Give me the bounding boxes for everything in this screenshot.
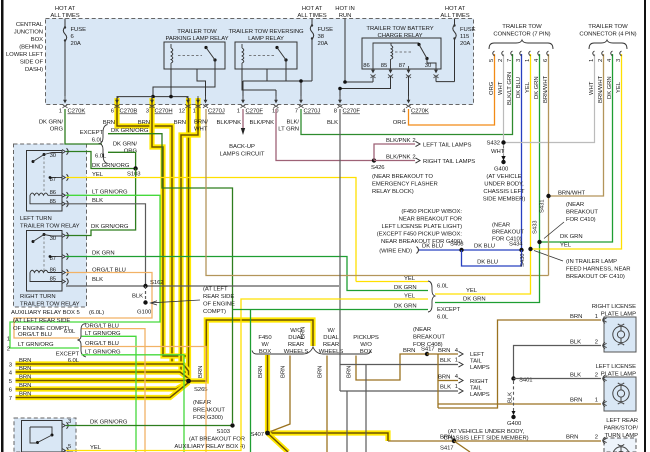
connector C270K pin 1 — [59, 96, 86, 115]
svg-text:BRN: BRN — [570, 398, 582, 404]
svg-text:BRN: BRN — [198, 366, 204, 378]
svg-text:6.0L: 6.0L — [437, 315, 449, 321]
wire-end arc — [417, 247, 419, 254]
wire DK GRN/ORG S103 to relay L2 pin30 — [66, 169, 136, 236]
page left border — [1, 0, 4, 452]
brace rows split — [78, 324, 87, 357]
svg-text:JUNCTION: JUNCTION — [14, 30, 43, 36]
svg-text:PICKUPS: PICKUPS — [353, 335, 379, 341]
wire BRN w/o dual rear wheels drop to S407 — [271, 356, 291, 432]
label EXCEPT 6.0L — [80, 130, 104, 144]
wire BRN to left license pin 1 — [438, 403, 601, 405]
left rear lamp bulb (partial) — [613, 444, 629, 452]
svg-text:TRAILER TOW: TRAILER TOW — [588, 24, 628, 30]
svg-text:TRAILER TOW BATTERY: TRAILER TOW BATTERY — [366, 26, 433, 32]
svg-text:BREAKOUT: BREAKOUT — [413, 335, 445, 341]
svg-text:TRAILER TOW RELAY: TRAILER TOW RELAY — [20, 224, 80, 230]
central junction box (dashed) — [46, 19, 474, 105]
wire BRN from C270H-3 (highlighted) — [152, 98, 189, 356]
wire DK GRN/ORG from C270K-1 — [65, 109, 102, 144]
svg-text:DUAL: DUAL — [288, 335, 304, 341]
svg-text:YEL: YEL — [92, 172, 104, 178]
left license plate lamp box — [604, 377, 636, 411]
right license plate lamp box — [604, 317, 636, 352]
svg-text:DUAL: DUAL — [323, 335, 339, 341]
label (NEAR BREAKOUT FOR C408) — [413, 327, 445, 348]
alternative headers W/ DUAL REAR WHEELS — [319, 328, 344, 355]
junction hot-in-run — [343, 80, 347, 84]
svg-text:C270J: C270J — [304, 109, 321, 115]
wire BRN from C270B-6 (highlighted) — [117, 98, 172, 364]
brace except/6.0L split — [100, 125, 108, 164]
wire BRN row 3 (highlighted) — [16, 364, 189, 381]
wire K3 87 to C270K-4 — [408, 76, 410, 100]
svg-text:S408: S408 — [450, 242, 464, 248]
wire BLK descender at x366 — [365, 365, 367, 452]
svg-text:BLK: BLK — [440, 385, 451, 391]
brace under alternatives — [252, 347, 371, 354]
svg-text:ORG/LT BLU: ORG/LT BLU — [85, 323, 119, 329]
wire DK GRN/ORG except-6.0L branch to S103-2 riser — [108, 134, 233, 423]
label (AT LEFT REAR SIDE OF ENGINE COMPT) — [203, 287, 235, 316]
svg-text:EMERGENCY FLASHER: EMERGENCY FLASHER — [372, 182, 438, 188]
svg-text:TRAILER TOW: TRAILER TOW — [177, 29, 217, 35]
svg-text:1: 1 — [525, 59, 531, 62]
svg-text:S103: S103 — [127, 172, 141, 178]
svg-text:PARKING LAMP RELAY: PARKING LAMP RELAY — [165, 36, 228, 42]
wire DK BLU S408-S434 — [419, 54, 522, 250]
svg-text:LEFT REAR: LEFT REAR — [606, 418, 638, 424]
wire BLK/PNK S426 to right tail lamps — [374, 160, 415, 162]
wire LT GRN/ORG relay L1 86 — [10, 195, 160, 348]
svg-text:(NEAR: (NEAR — [566, 202, 584, 208]
svg-text:TRAILER TOW RELAY: TRAILER TOW RELAY — [20, 302, 80, 308]
svg-text:BRN: BRN — [19, 383, 31, 389]
relay K3 trailer tow battery charge relay — [362, 26, 441, 78]
junction YEL — [528, 247, 532, 251]
svg-text:S417: S417 — [440, 446, 454, 452]
svg-text:BRN: BRN — [138, 120, 150, 126]
svg-text:BRN: BRN — [438, 348, 450, 354]
svg-text:2: 2 — [595, 435, 598, 441]
wire BRN/WHT 4-pin pin2 to S431 — [549, 54, 604, 196]
label BACK-UP LAMPS CIRCUIT — [220, 144, 265, 158]
svg-text:PLATE LAMP: PLATE LAMP — [601, 312, 636, 318]
wire DK GRN/ORG branch at x250 down — [233, 309, 429, 311]
svg-text:RUN: RUN — [339, 13, 352, 19]
svg-text:LT GRN: LT GRN — [278, 127, 299, 133]
svg-text:85: 85 — [50, 277, 57, 283]
svg-text:1: 1 — [237, 109, 240, 115]
node S401 — [511, 376, 532, 383]
wire DK GRN/ORG relay B pin3 to S103 — [66, 425, 233, 427]
svg-text:7: 7 — [9, 396, 12, 402]
svg-text:BLK: BLK — [132, 294, 143, 300]
svg-text:DK GRN: DK GRN — [560, 234, 583, 240]
connector C270J pin 7 — [295, 96, 321, 115]
svg-text:LAMP RELAY: LAMP RELAY — [248, 36, 284, 42]
svg-text:LAMPS: LAMPS — [470, 392, 490, 398]
svg-text:TRAILER TOW: TRAILER TOW — [502, 24, 542, 30]
svg-text:RIGHT TURN: RIGHT TURN — [20, 294, 56, 300]
svg-text:RELAY BLOCK): RELAY BLOCK) — [372, 189, 414, 195]
fuse 115 20A — [436, 19, 476, 82]
wire BRN/WHT 7-pin pin6 riser — [548, 54, 550, 276]
svg-text:C270K: C270K — [411, 109, 429, 115]
svg-text:DASH): DASH) — [25, 67, 43, 73]
svg-text:LOWER LEFT: LOWER LEFT — [6, 52, 44, 58]
svg-text:NEAR BREAKOUT FOR: NEAR BREAKOUT FOR — [399, 217, 462, 223]
wire BRN S417 to left tail lamps — [427, 353, 458, 355]
wire BRN S417 stub down — [454, 441, 470, 452]
svg-text:DK BLU: DK BLU — [516, 77, 522, 98]
wire BRN F450 w/box drop to S407 (highlighted) — [265, 355, 270, 433]
svg-text:S417: S417 — [421, 347, 435, 353]
connector arc overlays on highlighted pins — [115, 96, 201, 108]
svg-text:BLK: BLK — [327, 120, 338, 126]
svg-text:86: 86 — [363, 63, 370, 69]
wire YEL relay L1 87 — [66, 178, 356, 282]
svg-text:ORG: ORG — [489, 81, 495, 95]
svg-text:(AT LEFT: (AT LEFT — [203, 287, 228, 293]
svg-text:TAIL: TAIL — [470, 359, 483, 365]
svg-text:FUSE: FUSE — [318, 27, 334, 33]
svg-text:ORG: ORG — [50, 127, 64, 133]
wire BLK descender at x347 — [346, 391, 348, 452]
svg-text:DK GRN: DK GRN — [394, 304, 417, 310]
svg-text:DK GRN: DK GRN — [463, 297, 486, 303]
wire BRN row 6 (highlighted) — [16, 382, 189, 389]
svg-text:1: 1 — [455, 384, 458, 390]
svg-text:1: 1 — [455, 358, 458, 364]
arrow right tail lamps — [416, 158, 421, 163]
wire ORG/LT BLU except arm — [82, 347, 207, 452]
svg-text:DK GRN/ORG: DK GRN/ORG — [90, 420, 128, 426]
svg-text:F450: F450 — [258, 335, 272, 341]
right license lamp bulb — [613, 324, 629, 345]
svg-text:DK GRN/: DK GRN/ — [39, 120, 64, 126]
svg-text:BLK/PNK: BLK/PNK — [386, 155, 411, 161]
svg-text:S431: S431 — [540, 199, 546, 213]
svg-text:G400: G400 — [494, 167, 509, 173]
svg-text:SIDE OF: SIDE OF — [20, 60, 44, 66]
wire BRN from C270J-15 aux (highlighted) — [181, 98, 198, 372]
svg-text:LEFT: LEFT — [470, 352, 485, 358]
svg-text:BRN: BRN — [19, 392, 31, 398]
svg-text:BRN/: BRN/ — [194, 120, 208, 126]
svg-text:2: 2 — [598, 59, 604, 62]
svg-text:G100: G100 — [137, 310, 152, 316]
svg-text:W/: W/ — [261, 342, 268, 348]
auxiliary relay box 5 (dashed) — [14, 144, 87, 307]
node S103 — [127, 166, 141, 177]
ground G400 (lower) — [507, 411, 522, 427]
svg-text:CONNECTOR (7 PIN): CONNECTOR (7 PIN) — [493, 32, 550, 38]
svg-text:YEL: YEL — [525, 81, 531, 93]
svg-text:C270B: C270B — [120, 109, 138, 115]
svg-text:ORG: ORG — [393, 120, 407, 126]
wire BRN from S407 to right (highlighted) — [268, 433, 389, 441]
svg-text:RIGHT: RIGHT — [470, 379, 488, 385]
node S407 — [250, 431, 269, 438]
wire BLK to right tail lamps — [340, 390, 458, 392]
svg-text:BLK: BLK — [508, 392, 514, 403]
svg-text:(EXCEPT F450 PICKUP W/BOX:: (EXCEPT F450 PICKUP W/BOX: — [377, 232, 463, 238]
svg-text:7: 7 — [507, 59, 513, 62]
svg-text:38: 38 — [318, 34, 325, 40]
wire YEL 6.0L row — [356, 281, 428, 283]
svg-text:YEL: YEL — [616, 81, 622, 93]
node S408 — [450, 242, 464, 253]
wire BLK/LT GRN C270J-7 to 7-pin connector — [301, 54, 513, 135]
svg-text:S162: S162 — [150, 280, 164, 286]
connector C270B pin 6 — [111, 96, 138, 115]
wire BLK C270F-8 down — [339, 109, 341, 391]
wire BLK right license pin 2 to S401 — [514, 346, 602, 379]
svg-text:BRN/WHT: BRN/WHT — [558, 191, 586, 197]
svg-text:OF ENGINE COMPT): OF ENGINE COMPT) — [13, 326, 69, 332]
ground G100 — [137, 300, 152, 315]
brace merge rows — [428, 281, 435, 312]
svg-text:BRN: BRN — [403, 348, 415, 354]
rotated pin labels 4-pin — [589, 58, 622, 103]
svg-text:DK GRN: DK GRN — [534, 76, 540, 99]
svg-text:BLK/PNK: BLK/PNK — [386, 138, 411, 144]
wire K2 to C270J-7 with fuse38 join — [267, 75, 301, 100]
svg-text:C270J: C270J — [208, 109, 225, 115]
svg-text:FEED HARNESS, NEAR: FEED HARNESS, NEAR — [566, 267, 630, 273]
svg-text:YEL: YEL — [90, 445, 102, 451]
svg-text:BRN/WHT: BRN/WHT — [598, 75, 604, 103]
svg-text:2: 2 — [595, 340, 598, 346]
wire WHT 7-pin pin2 to S432 — [503, 54, 505, 156]
pin hooks 7-pin — [493, 51, 549, 56]
svg-text:C270F: C270F — [246, 109, 264, 115]
svg-text:CONNECTOR (4 PIN): CONNECTOR (4 PIN) — [579, 32, 636, 38]
svg-text:LT GRN/ORG: LT GRN/ORG — [18, 342, 54, 348]
svg-text:(IN TRAILER LAMP: (IN TRAILER LAMP — [566, 259, 617, 265]
svg-text:HOT AT: HOT AT — [445, 6, 466, 12]
wire BLK S162 to G100 — [145, 286, 147, 299]
pointer to yel junction — [534, 251, 563, 262]
svg-text:YEL: YEL — [404, 276, 416, 282]
ground G400 — [494, 156, 509, 173]
node S417 lower — [440, 439, 456, 452]
svg-text:BOX: BOX — [31, 37, 43, 43]
svg-text:DK GRN/ORG: DK GRN/ORG — [92, 163, 130, 169]
label HOT AT ALL TIMES (fuse 38) — [297, 6, 326, 19]
label LEFT REAR PARK/STOP/TURN LAMP — [604, 418, 639, 439]
wire BRN row 4 (highlighted) — [16, 372, 189, 379]
svg-text:EXCEPT: EXCEPT — [80, 130, 104, 136]
svg-text:BRN: BRN — [19, 366, 31, 372]
wire hot-in-run to relay pin 86 — [345, 19, 373, 83]
label (NEAR BREAKOUT FOR C410) at S431 — [566, 202, 598, 223]
svg-text:EXCEPT: EXCEPT — [437, 307, 461, 313]
wire DK GRN relay L2 87 — [66, 257, 428, 291]
svg-text:2: 2 — [498, 59, 504, 62]
node S426 — [371, 158, 385, 171]
svg-text:1: 1 — [595, 314, 598, 320]
svg-text:BRN: BRN — [438, 375, 450, 381]
svg-text:BLK: BLK — [92, 277, 103, 283]
wire K2 switch to C270F-1 — [243, 69, 286, 100]
svg-text:WHT: WHT — [194, 127, 208, 133]
auxiliary relay box 4 (dashed, bottom-left) — [14, 418, 76, 452]
svg-text:LT GRN/ORG: LT GRN/ORG — [85, 349, 121, 355]
connector C270H pin 3 — [146, 96, 173, 115]
svg-text:EXCEPT: EXCEPT — [56, 352, 80, 358]
svg-text:DK GRN: DK GRN — [92, 251, 115, 257]
wire BRN S407 stub to G300 (highlighted) — [268, 433, 289, 452]
label HOT AT ALL TIMES (fuse 6) — [50, 6, 79, 19]
relay B pin arcs — [62, 422, 68, 428]
wire BRN row 7 (highlighted) — [16, 383, 189, 398]
svg-text:1: 1 — [7, 337, 10, 343]
alternative headers F450 W/BOX — [258, 335, 272, 355]
svg-text:AUXILIARY RELAY BOX 5: AUXILIARY RELAY BOX 5 — [11, 310, 80, 316]
relay L1 pin numbers — [50, 153, 57, 205]
fuse 6 20A — [63, 19, 86, 97]
label (AT VEHICLE UNDER BODY, CHASSIS LEFT SIDE MEMBER) — [443, 429, 528, 442]
relay L2 coil — [30, 270, 62, 281]
svg-text:BLK: BLK — [92, 198, 103, 204]
label AUXILIARY RELAY BOX 5 — [11, 310, 104, 332]
labels BRN on rows 3-7 — [19, 358, 31, 398]
relay B switch — [30, 427, 52, 443]
svg-text:COMPT): COMPT) — [203, 309, 226, 315]
wire BRN to right license pin 1 — [438, 320, 601, 408]
svg-text:BRN: BRN — [566, 435, 578, 441]
label (IN TRAILER LAMP FEED HARNESS...) — [566, 259, 630, 280]
svg-text:WHT: WHT — [589, 81, 595, 95]
svg-text:BLK/PNK: BLK/PNK — [217, 120, 242, 126]
connector C270F pin 10 — [272, 96, 279, 115]
wire colour labels under connector row — [39, 120, 407, 133]
svg-text:2: 2 — [7, 347, 10, 353]
wire YEL merged to 7-pin — [435, 54, 531, 294]
svg-text:30: 30 — [50, 236, 57, 242]
svg-text:85: 85 — [381, 63, 388, 69]
svg-text:BLK/PNK: BLK/PNK — [250, 120, 275, 126]
right license lamp pins — [603, 317, 607, 324]
label DK GRN/ ORG (6.0L branch) — [113, 142, 138, 155]
svg-text:86: 86 — [50, 268, 57, 274]
svg-text:85: 85 — [50, 199, 57, 205]
wire YEL relay B pin5 — [66, 299, 428, 451]
svg-text:1: 1 — [59, 109, 62, 115]
wire DK GRN merged to 7-pin — [435, 54, 540, 303]
svg-text:C270F: C270F — [343, 109, 361, 115]
svg-text:LAMPS CIRCUIT: LAMPS CIRCUIT — [220, 152, 265, 158]
svg-text:6.0L: 6.0L — [92, 138, 104, 144]
svg-text:DK GRN/: DK GRN/ — [113, 142, 138, 148]
svg-text:DK GRN: DK GRN — [607, 76, 613, 99]
node S434 — [509, 242, 524, 253]
svg-text:(NEAR: (NEAR — [413, 327, 431, 333]
svg-text:REAR: REAR — [288, 342, 304, 348]
junction DK GRN S433 — [537, 240, 541, 244]
left rear park/stop/turn lamp box (dashed) — [604, 438, 636, 452]
svg-text:YEL: YEL — [560, 243, 572, 249]
wire WHT 4-pin pin1 to S432 — [504, 54, 595, 143]
svg-text:(BEHIND: (BEHIND — [19, 45, 43, 51]
svg-text:TRAILER TOW REVERSING: TRAILER TOW REVERSING — [228, 29, 304, 35]
svg-text:1: 1 — [589, 59, 595, 62]
svg-text:20A: 20A — [460, 41, 470, 47]
label (NEAR BREAKOUT FOR G300) — [193, 400, 225, 421]
wire BLK to left tail lamps — [340, 364, 458, 366]
left license lamp bulb — [613, 383, 629, 404]
svg-text:RIGHT TAIL LAMPS: RIGHT TAIL LAMPS — [423, 159, 475, 165]
svg-text:TURN LAMP: TURN LAMP — [605, 433, 639, 439]
svg-text:G400: G400 — [507, 421, 522, 427]
svg-text:BREAKOUT: BREAKOUT — [566, 210, 598, 216]
svg-text:(AT VEHICLE UNDER BODY,: (AT VEHICLE UNDER BODY, — [448, 429, 525, 435]
svg-text:(AT VEHICLE: (AT VEHICLE — [486, 174, 521, 180]
svg-text:6.0L: 6.0L — [437, 284, 449, 290]
relay K2 trailer tow reversing lamp relay — [228, 29, 304, 69]
svg-text:LT GRN/ORG: LT GRN/ORG — [85, 331, 121, 337]
pin hooks 4-pin — [593, 51, 622, 56]
label HOT IN RUN — [335, 6, 355, 19]
svg-text:S407: S407 — [250, 432, 264, 438]
wire LT GRN/ORG except arm — [82, 355, 185, 452]
wire BLK S401 to left license pin 2 — [514, 378, 602, 380]
wire BRN w/ dual rear wheels drop — [326, 356, 328, 452]
label (AT VEHICLE UNDER BODY CHASSIS LEFT SIDE MEMBER) — [483, 174, 526, 203]
wire dashed to G400 — [503, 146, 505, 156]
svg-text:BRN: BRN — [318, 366, 324, 378]
svg-text:BREAKOUT OF C410): BREAKOUT OF C410) — [566, 274, 625, 280]
wire BRN S417 branch to right tail — [438, 354, 458, 381]
svg-text:DK BLU: DK BLU — [422, 244, 443, 250]
label EXCEPT 6.0L (merge) — [437, 307, 461, 321]
connector C270F pin 1 — [237, 96, 264, 115]
svg-text:W/O: W/O — [290, 328, 302, 334]
svg-text:(AT LEFT REAR SIDE: (AT LEFT REAR SIDE — [13, 318, 70, 324]
svg-text:WHT: WHT — [498, 81, 504, 95]
svg-text:2: 2 — [412, 138, 415, 144]
svg-text:87: 87 — [50, 256, 56, 262]
arrow BRN left tail — [459, 351, 464, 356]
wire ORG C270K-4 to 7-pin connector — [409, 54, 495, 125]
label EXCEPT 6.0L (rows) — [56, 352, 80, 365]
svg-text:20A: 20A — [318, 41, 328, 47]
svg-text:2: 2 — [595, 373, 598, 379]
label RIGHT TAIL LAMPS — [470, 379, 490, 398]
wire YEL branch to 4-pin — [531, 54, 622, 249]
svg-text:BRN: BRN — [347, 366, 353, 378]
wire BLK/PNK C270F-10 to S426 — [276, 109, 374, 161]
svg-text:BRN: BRN — [570, 314, 582, 320]
svg-text:BRN: BRN — [174, 120, 186, 126]
label (AT BREAKOUT FOR AUXILIARY RELAY BOX 4) — [174, 437, 245, 451]
label (NEAR BREAKOUT TO EMERGENCY FLASHER RELAY BLOCK) — [372, 174, 438, 195]
svg-text:DK BLU: DK BLU — [474, 244, 495, 250]
svg-text:W/: W/ — [327, 328, 334, 334]
left rear lamp pin — [603, 437, 607, 444]
svg-text:CHASSIS LEFT: CHASSIS LEFT — [483, 189, 525, 195]
wire BLK dashed S401 to G400 — [513, 381, 515, 414]
svg-text:BLK: BLK — [570, 340, 581, 346]
node S265 — [186, 379, 208, 393]
junction at C270H-3 drop — [151, 95, 155, 99]
svg-text:6.0L: 6.0L — [95, 154, 107, 160]
relay L1 pin arcs — [62, 148, 68, 154]
brace 7-pin — [489, 40, 553, 49]
node S103 (aux box 4) — [216, 423, 234, 435]
